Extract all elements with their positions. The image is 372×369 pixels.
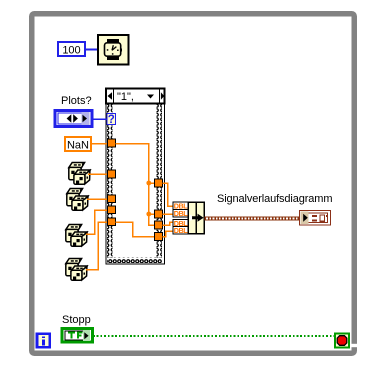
tunnel T4 — [108, 206, 116, 214]
wire RT3 to DBL3 — [163, 222, 174, 225]
wait (ms) function — [98, 35, 129, 65]
junction dot 1 — [146, 181, 151, 186]
dice icon die3 — [66, 225, 87, 247]
svg-text:Stopp: Stopp — [62, 314, 91, 326]
dynamic data wire — [205, 217, 301, 221]
wire die1 to tunnel T2 — [88, 173, 108, 175]
constant NaN — [65, 137, 91, 152]
loop condition stop terminal — [335, 334, 349, 348]
waveform chart terminal — [300, 211, 331, 226]
case structure outer frame — [106, 89, 165, 265]
iteration terminal i — [37, 334, 50, 347]
wire RT1 to DBL1 — [163, 183, 174, 206]
dice icon die2 — [67, 189, 88, 211]
wire NaN to tunnel T1 — [91, 143, 108, 145]
wire die4 to tunnel T5 — [86, 222, 108, 270]
svg-text:"1",: "1", — [117, 91, 134, 103]
branch to RT1 — [149, 182, 155, 184]
wire 100 to wait — [85, 49, 97, 51]
dice icon die1 — [69, 163, 90, 185]
numeric constant 100 — [58, 42, 85, 57]
wire T5 to RT4 inside case — [116, 222, 155, 237]
branch to RT2 — [149, 213, 155, 215]
tunnel T2 — [108, 170, 116, 178]
wire RT2 to DBL2 — [163, 213, 174, 215]
boolean control Stopp TF — [62, 329, 93, 343]
svg-text:DBL: DBL — [174, 226, 188, 235]
tunnel RT2 — [155, 210, 163, 218]
svg-text:DBL: DBL — [174, 209, 188, 218]
input cell DBL1 — [173, 202, 188, 234]
junction dot 2 — [146, 212, 151, 217]
svg-text:NaN: NaN — [67, 140, 89, 152]
tunnel T1 — [108, 139, 116, 147]
case selector terminal ? — [107, 114, 116, 127]
wire die2 to tunnel T3 — [87, 198, 108, 200]
wire die3 to tunnel T4 — [86, 210, 108, 234]
merge arrow — [190, 214, 204, 222]
case selector label — [106, 89, 165, 104]
case border chain bottom — [107, 258, 162, 264]
ring constant Plots? — [55, 111, 92, 127]
svg-text:Plots?: Plots? — [61, 95, 92, 107]
tunnel RT1 — [155, 179, 163, 187]
svg-text:100: 100 — [62, 45, 80, 57]
tunnel T3 — [108, 195, 116, 203]
svg-text:?: ? — [108, 114, 115, 126]
case border chain right — [157, 104, 163, 258]
dice icon die4 — [66, 259, 87, 281]
boolean wire Stopp to stop terminal — [93, 335, 335, 337]
merge signals node — [173, 202, 204, 236]
case border chain left — [107, 104, 113, 258]
tunnel T5 — [108, 218, 116, 226]
wire RT4 to DBL4 — [163, 231, 174, 237]
loop border notch near stop terminal — [351, 344, 357, 347]
tunnel RT4 — [155, 233, 163, 241]
tunnel RT3 — [155, 221, 163, 229]
wire NaN chain inside case — [116, 144, 155, 226]
svg-text:Signalverlaufsdiagramm: Signalverlaufsdiagramm — [217, 193, 332, 205]
wire Plots? to ? — [92, 118, 108, 120]
